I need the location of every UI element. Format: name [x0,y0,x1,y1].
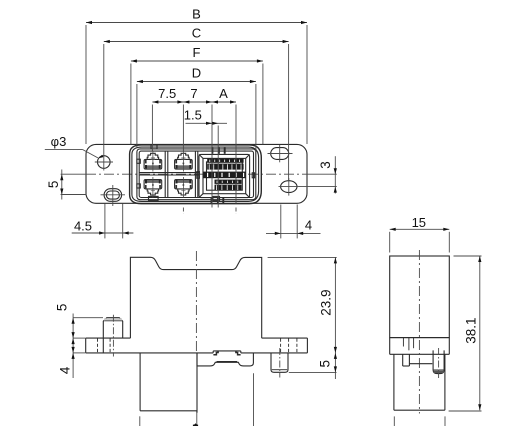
svg-text:F: F [193,45,201,60]
svg-text:5: 5 [55,304,70,312]
black ticks above pocket [211,148,213,154]
divider col2/pocket [194,151,196,197]
oval hole top-right [271,148,289,160]
svg-text:1.5: 1.5 [184,108,202,123]
svg-text:φ3: φ3 [51,134,67,149]
cavity row2 col1 [144,180,162,189]
side lower block [393,354,395,410]
svg-text:D: D [192,66,201,81]
pin block upper row [207,159,243,163]
cavity row1 col2 [175,159,193,169]
front view main body outline [130,257,261,338]
dimension C [104,41,289,43]
side view flange band [390,337,450,339]
svg-text:3: 3 [318,161,333,169]
dimension D [137,81,256,83]
hidden lines right flange [280,339,282,353]
dimension B [86,22,307,24]
pin block middle band [203,172,245,179]
boss centerline [112,315,114,357]
hole bottom-right [281,181,297,193]
top view: mounting plate [86,144,307,203]
boss on left flange [103,318,122,338]
hidden hole lines in left flange [97,339,99,353]
dimension 1.5 [186,122,228,124]
top view centerline (horizontal chain) [61,173,86,175]
flange left segment [86,337,131,339]
small tab on body top edge [151,145,157,149]
svg-text:7: 7 [190,86,197,101]
right peg below flange [271,353,288,372]
dimension 5 (top view left) [61,170,63,200]
extension below channel [253,373,255,426]
center tab with hooks [212,351,214,353]
side view body [390,256,450,338]
pin pocket frame [199,154,250,197]
svg-text:4.5: 4.5 [74,218,92,233]
mounting hole phi3 top-left [98,156,111,169]
dimension 5/4 (front view left) [72,314,74,379]
dimension 3 (top view right) [299,186,337,188]
pocket side tabs [197,172,200,179]
svg-text:A: A [219,86,228,101]
front view centerline [195,251,197,352]
flange ticks [402,338,404,347]
dimension 4 (top view right) [266,232,321,234]
dimension 4.5 [72,232,134,234]
right peg centerline [279,348,281,378]
center stepped channel [197,353,253,366]
cavity row2 col2 [175,180,193,189]
pin block lower row [215,180,242,184]
dimension 38.1 [454,255,482,257]
svg-text:4: 4 [58,366,73,374]
svg-text:4: 4 [305,218,312,233]
small tabs on shroud bottom edge [149,196,159,200]
connector body outer (double wall) [130,145,262,204]
shroud rect (D extent) [137,149,256,200]
side small peg [402,354,404,366]
dimension F [131,60,263,62]
flange bottom line [86,352,214,354]
svg-text:C: C [192,26,201,41]
side big peg [433,350,444,373]
svg-text:23.9: 23.9 [319,289,334,315]
svg-text:B: B [192,7,201,22]
svg-text:7.5: 7.5 [158,86,176,101]
dimension 15 [390,228,450,230]
dimension 5 (front view right) [289,371,337,373]
oval slot bottom-left (double outline) [104,189,122,202]
shroud left notches [137,159,140,163]
cavity column divider [164,151,166,197]
svg-text:38.1: 38.1 [464,317,479,343]
svg-text:5: 5 [318,360,333,368]
svg-text:15: 15 [412,215,426,230]
cavity row divider [139,172,199,174]
svg-text:5: 5 [46,181,61,189]
lower block [139,353,141,411]
cavity row1 col1 [144,159,162,169]
dimensions 7.5 / 7 / A [152,101,236,103]
arrow mark under lower block [193,423,199,426]
dimension 23.9 [268,256,337,258]
side view centerline [418,250,420,414]
black ticks below pocket [211,197,213,203]
